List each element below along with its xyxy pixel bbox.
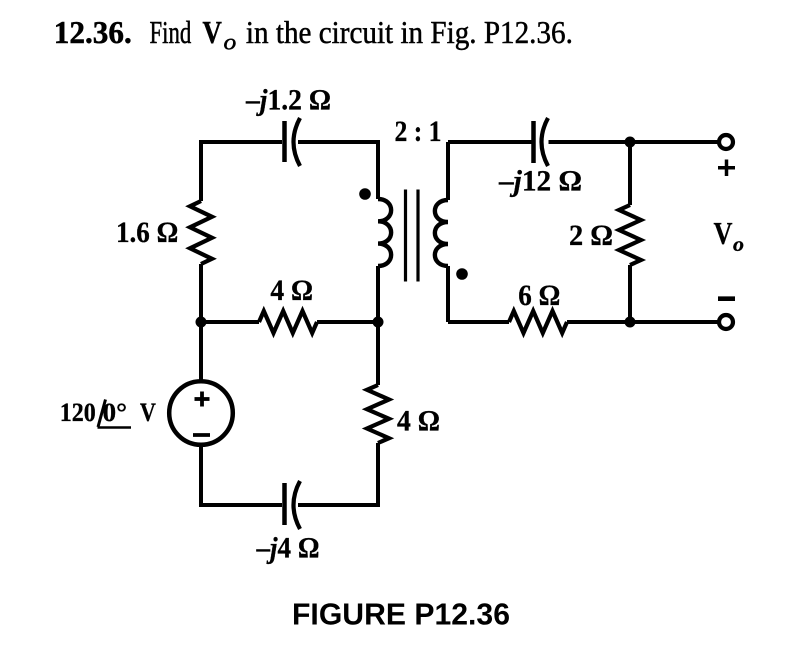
svg-text:o: o: [224, 30, 237, 56]
svg-text:Find: Find: [150, 14, 192, 50]
svg-text:4 Ω: 4 Ω: [270, 274, 313, 307]
svg-text:2 Ω: 2 Ω: [569, 219, 613, 252]
svg-text:V: V: [714, 216, 733, 251]
svg-text:in the circuit in Fig. P12.36.: in the circuit in Fig. P12.36.: [246, 14, 573, 50]
svg-text:4 Ω: 4 Ω: [397, 405, 440, 438]
svg-text:V: V: [203, 14, 222, 50]
svg-text:1.6 Ω: 1.6 Ω: [116, 216, 178, 249]
svg-text:120: 120: [60, 398, 96, 427]
svg-text:2 : 1: 2 : 1: [395, 115, 442, 148]
svg-text:–j12 Ω: –j12 Ω: [498, 165, 582, 198]
svg-text:o: o: [733, 232, 744, 256]
svg-text:6 Ω: 6 Ω: [518, 279, 560, 312]
svg-text:–j1.2 Ω: –j1.2 Ω: [245, 84, 331, 117]
svg-text:V: V: [140, 398, 156, 427]
svg-text:–j4 Ω: –j4 Ω: [256, 532, 320, 565]
svg-text:FIGURE P12.36: FIGURE P12.36: [292, 597, 510, 632]
svg-text:12.36.: 12.36.: [54, 14, 132, 50]
